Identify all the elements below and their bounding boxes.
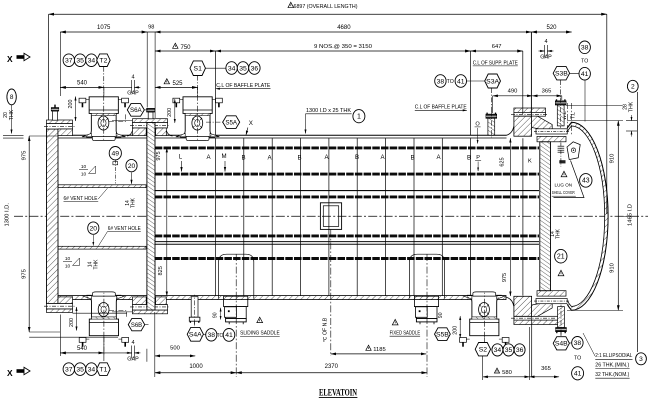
svg-text:540: 540 [77, 80, 88, 86]
tube row y=244.2 [155, 243, 539, 245]
balloon 43 [580, 174, 592, 188]
svg-text:B: B [467, 155, 471, 162]
975/825 inner dims left [166, 148, 168, 296]
nozzle S2 (bottom right) [460, 292, 509, 347]
svg-text:20: 20 [128, 163, 136, 170]
nozzle T1 (bottom left) [79, 292, 128, 347]
svg-text:S2: S2 [479, 347, 488, 354]
svg-text:GAP: GAP [127, 91, 139, 97]
svg-text:TO: TO [581, 59, 588, 65]
svg-text:T1: T1 [99, 366, 107, 373]
dim 540 bottom [60, 352, 104, 354]
channel pass partition plate top [58, 185, 146, 188]
svg-text:200: 200 [167, 108, 173, 117]
support plate [522, 138, 524, 295]
tube row y=174.1 [155, 173, 539, 176]
balloon S5B [435, 328, 451, 341]
svg-text:647: 647 [492, 44, 502, 50]
lug pin [558, 145, 565, 147]
tube row y=196.9 [155, 195, 539, 198]
625/975 inner dims right [509, 138, 511, 296]
nozzle S4A drain (bottom) [189, 295, 200, 325]
balloon 3 + head note [636, 353, 647, 365]
1465 I.D dim [637, 92, 639, 352]
svg-text:4: 4 [544, 39, 547, 45]
svg-text:910: 910 [610, 154, 616, 164]
910/910 dim right [617, 121, 619, 311]
svg-text:34: 34 [88, 366, 96, 373]
svg-text:T2: T2 [99, 58, 107, 65]
svg-text:32 THK.(NOM.): 32 THK.(NOM.) [595, 372, 629, 378]
svg-text:THK: THK [556, 228, 562, 239]
svg-text:975: 975 [156, 151, 162, 160]
channel/shell girth flange top [133, 119, 168, 123]
balloons 37 35 34 T2 [63, 54, 74, 67]
20 THK + balloon 8 [7, 89, 16, 105]
svg-text:98: 98 [148, 25, 154, 31]
svg-text:825: 825 [158, 266, 164, 275]
svg-text:9 NOS.@ 350 = 3150: 9 NOS.@ 350 = 3150 [314, 44, 372, 50]
rear girth flange bottom [506, 297, 514, 306]
svg-text:975: 975 [22, 269, 28, 279]
svg-text:TO: TO [447, 79, 454, 85]
balloon 2 + 28 THK [627, 80, 638, 92]
svg-text:8: 8 [10, 94, 14, 101]
svg-text:625: 625 [499, 157, 505, 166]
svg-text:910: 910 [610, 263, 616, 273]
svg-text:4: 4 [131, 340, 134, 346]
svg-text:975: 975 [22, 151, 28, 161]
svg-text:525: 525 [172, 81, 183, 87]
cover vent stub [53, 111, 58, 120]
sliding saddle [219, 254, 254, 324]
svg-text:1300 I.D x 25 THK: 1300 I.D x 25 THK [306, 108, 351, 114]
baffle 7 [385, 138, 387, 295]
tube row y=235.9 [155, 234, 539, 237]
svg-text:1465 I.D: 1465 I.D [628, 204, 634, 226]
svg-text:41: 41 [457, 78, 465, 85]
channel pass partition plate bottom [58, 246, 146, 249]
svg-text:41: 41 [581, 71, 589, 78]
svg-text:S5B: S5B [436, 331, 449, 338]
balloons 38 TO 41 (top right col) [579, 41, 590, 54]
svg-text:35: 35 [76, 58, 84, 65]
tube row y=190.6 [155, 190, 539, 192]
svg-text:975: 975 [502, 273, 508, 282]
baffle 9 [441, 138, 443, 295]
svg-text:1185: 1185 [373, 347, 385, 353]
channel cover plate [47, 129, 59, 304]
bottom: S4A 38 TO 41 [187, 327, 203, 341]
svg-text:34: 34 [228, 65, 236, 72]
balloons S2 34 35 36 [475, 343, 490, 356]
svg-text:S6B: S6B [131, 323, 142, 329]
svg-text:4: 4 [131, 74, 134, 80]
svg-text:2: 2 [631, 84, 635, 91]
svg-text:1075: 1075 [97, 25, 111, 31]
svg-text:SLIDING SADDLE: SLIDING SADDLE [240, 331, 280, 337]
svg-text:GAP: GAP [540, 55, 552, 61]
svg-text:K: K [528, 158, 532, 164]
fixed saddle [409, 254, 444, 324]
dim 1000 / 2370 bottom [155, 372, 236, 374]
balloons S4B 38 TO 41 [553, 337, 569, 350]
svg-text:36: 36 [251, 65, 259, 72]
nozzle S4B drain (bottom, on head) [556, 305, 567, 335]
svg-text:580: 580 [502, 370, 512, 376]
CL OF N.B [330, 230, 332, 356]
overall length dimension [49, 13, 607, 15]
svg-text:SHELL COVER: SHELL COVER [552, 190, 575, 195]
svg-text:GAP: GAP [127, 357, 139, 363]
svg-text:B: B [355, 154, 359, 161]
svg-text:O: O [475, 121, 480, 127]
svg-text:90: 90 [212, 312, 218, 318]
shell bottom wall (hatched strip) [58, 296, 506, 300]
tube row y=258.5 [155, 257, 539, 260]
svg-text:6897 (OVERALL LENGTH): 6897 (OVERALL LENGTH) [294, 4, 358, 10]
svg-text:X: X [249, 120, 253, 127]
baffle 10 [470, 138, 472, 295]
svg-text:FIXED SADDLE: FIXED SADDLE [390, 330, 421, 336]
svg-text:THK: THK [131, 197, 137, 208]
svg-text:THK: THK [93, 259, 99, 270]
svg-text:3: 3 [639, 356, 643, 363]
svg-text:S4B: S4B [555, 341, 568, 348]
svg-text:2370: 2370 [325, 364, 339, 370]
svg-text:41: 41 [574, 371, 582, 378]
svg-text:41: 41 [225, 332, 233, 339]
svg-text:THK: THK [629, 101, 635, 112]
dim row 2 [60, 31, 147, 33]
rear tubesheet [540, 142, 551, 291]
svg-text:38: 38 [208, 332, 216, 339]
svg-text:38: 38 [574, 340, 582, 347]
dim row 3 [155, 50, 215, 52]
SLIDING SADDLE label [257, 317, 263, 322]
svg-text:LUG ON: LUG ON [555, 183, 573, 188]
svg-text:43: 43 [582, 178, 590, 185]
balloon 49 + 20 (channel) [109, 147, 121, 160]
svg-text:490: 490 [508, 89, 518, 95]
svg-text:540: 540 [77, 346, 88, 352]
shell cover ellipsoidal head [567, 122, 608, 310]
svg-text:10: 10 [65, 256, 71, 262]
balloon S6A [127, 104, 144, 117]
dim 1185 [331, 353, 426, 355]
rear girth flange top [506, 126, 514, 135]
svg-text:200: 200 [452, 326, 458, 335]
vessel centerline [14, 215, 648, 217]
svg-text:36: 36 [516, 347, 524, 354]
svg-text:6# VENT HOLE: 6# VENT HOLE [64, 196, 98, 202]
lug on shell cover [567, 142, 580, 160]
FIXED SADDLE label [392, 319, 398, 324]
svg-text:520: 520 [546, 25, 557, 31]
svg-text:4680: 4680 [337, 25, 351, 31]
svg-text:S3B: S3B [555, 71, 568, 78]
S3B flange extension leader [566, 104, 622, 106]
svg-text:34: 34 [494, 347, 502, 354]
baffle 2 [243, 138, 245, 295]
svg-text:49: 49 [112, 151, 120, 158]
dim 500 bottom [155, 355, 195, 357]
svg-text:X: X [7, 54, 13, 64]
baffle 6 [356, 138, 358, 295]
svg-text:500: 500 [170, 345, 180, 351]
shell top wall [58, 134, 507, 136]
svg-text:T.L: T.L [571, 112, 577, 119]
svg-text:C.L OF BAFFLE PLATE: C.L OF BAFFLE PLATE [216, 83, 270, 89]
baffle 4 [300, 138, 302, 295]
dim row 490/365 (right) [493, 95, 533, 97]
nozzle S1 (top) [173, 95, 222, 141]
balloons 37 35 34 T1 [63, 363, 74, 376]
svg-text:B: B [297, 155, 301, 162]
baffle 1 [215, 138, 217, 295]
svg-text:℃ OF N.B: ℃ OF N.B [323, 317, 329, 342]
W.L / T.L tangent marks [566, 103, 568, 134]
svg-text:1: 1 [357, 114, 361, 121]
svg-text:365: 365 [542, 88, 552, 94]
svg-text:20: 20 [90, 225, 98, 232]
svg-text:38: 38 [581, 45, 589, 52]
svg-text:20: 20 [3, 112, 9, 118]
svg-text:21: 21 [557, 254, 565, 261]
svg-text:B: B [410, 154, 414, 161]
svg-text:10: 10 [81, 164, 87, 170]
svg-text:1000: 1000 [189, 364, 203, 370]
svg-text:X: X [7, 368, 13, 378]
stationary tubesheet [147, 123, 155, 311]
svg-text:S1: S1 [194, 66, 203, 73]
shell cover flange rings [536, 129, 567, 134]
svg-text:26 THK.(MIN.): 26 THK.(MIN.) [595, 363, 629, 369]
tube row y=147.9 [155, 146, 539, 149]
svg-text:37: 37 [65, 58, 73, 65]
svg-text:35: 35 [239, 65, 247, 72]
bottom ext line [29, 336, 118, 338]
saddle centerlines [235, 254, 237, 377]
svg-text:38: 38 [437, 78, 445, 85]
balloon S1 + 34 35 36 [190, 61, 206, 76]
svg-text:S6A: S6A [130, 107, 143, 114]
balloons 38 TO 41 (mid) [435, 75, 446, 88]
975 vertical dim left [28, 136, 30, 332]
svg-text:S4A: S4A [189, 332, 202, 339]
inspection box on centerline [320, 203, 341, 230]
svg-text:C.L OF BAFFLE PLATE: C.L OF BAFFLE PLATE [415, 105, 467, 111]
svg-text:B: B [241, 154, 245, 161]
tubesheet vent stub [148, 112, 153, 119]
svg-text:10: 10 [81, 172, 87, 178]
svg-text:TO: TO [217, 333, 224, 339]
svg-text:P: P [476, 155, 480, 161]
balloon S5A [223, 116, 240, 129]
baffle 5 [328, 138, 330, 295]
dim row 540/525 (left) [60, 86, 104, 88]
nozzle T2 (top left) [79, 95, 128, 141]
svg-text:200: 200 [69, 318, 75, 327]
svg-text:2:1 ELLIPSODIAL: 2:1 ELLIPSODIAL [595, 353, 632, 359]
svg-text:35: 35 [76, 366, 84, 373]
svg-text:ELEVATOIN: ELEVATOIN [319, 388, 357, 398]
cover bottom flange ring [47, 309, 73, 313]
svg-text:750: 750 [180, 45, 191, 51]
svg-text:S5A: S5A [225, 119, 238, 126]
svg-text:200: 200 [68, 100, 74, 109]
dim 580/365 bottom right [483, 376, 530, 378]
svg-text:S3A: S3A [486, 78, 499, 85]
balloon 21 + 14 THK (rear tubesheet) [555, 249, 567, 263]
baffle 3 [271, 138, 273, 295]
svg-text:10: 10 [65, 264, 71, 270]
girth flange bottom [133, 310, 168, 314]
svg-text:35: 35 [505, 347, 513, 354]
svg-text:TO: TO [574, 355, 581, 361]
bottom: S6B balloon [128, 318, 145, 330]
svg-text:THK: THK [9, 109, 15, 120]
svg-text:1300 I.D.: 1300 I.D. [5, 203, 11, 227]
nozzle S3A (top, on shell) [486, 111, 497, 137]
svg-text:6# VENT HOLE: 6# VENT HOLE [108, 226, 141, 232]
svg-text:M: M [221, 153, 226, 160]
svg-text:C.L OF SUPP. PLATE: C.L OF SUPP. PLATE [473, 60, 518, 66]
tube row y=241.6 [155, 241, 539, 243]
svg-text:90: 90 [438, 312, 444, 318]
svg-text:37: 37 [65, 366, 73, 373]
svg-text:34: 34 [88, 58, 96, 65]
svg-text:365: 365 [541, 366, 551, 372]
baffle 8 [413, 138, 415, 295]
nozzle S3B (top, on head) [555, 98, 566, 128]
cover top flange ring [47, 120, 73, 124]
